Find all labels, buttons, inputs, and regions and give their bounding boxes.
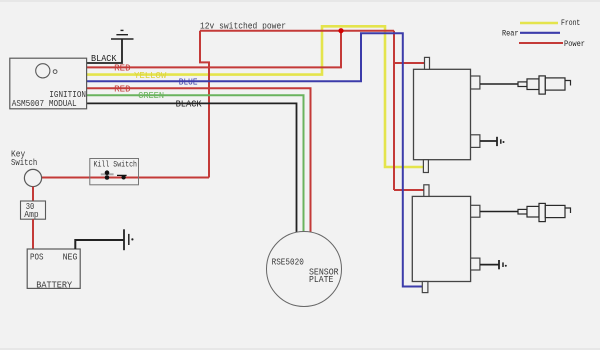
svg-text:PLATE: PLATE	[309, 275, 333, 285]
coil2 ground connector	[471, 258, 480, 270]
wire red vertical to coils	[394, 31, 425, 190]
fuse F1 30 Amp	[21, 201, 46, 219]
svg-text:YELLOW: YELLOW	[134, 71, 167, 81]
kill switch S2	[90, 159, 139, 185]
svg-text:12v switched power: 12v switched power	[200, 20, 286, 31]
svg-text:Front: Front	[561, 18, 580, 28]
coil2 ground wire	[480, 264, 499, 266]
wire red 12v rail top	[200, 30, 394, 32]
coil2 top tab	[424, 185, 429, 197]
coil1 HT connector	[471, 76, 480, 89]
wire red1 from module to rail	[87, 31, 341, 68]
svg-text:BLUE: BLUE	[179, 77, 198, 87]
wire black battery NEG to ground	[75, 240, 124, 249]
svg-text:POS: POS	[30, 253, 44, 263]
svg-text:GREEN: GREEN	[138, 91, 164, 101]
svg-text:NEG: NEG	[63, 253, 78, 263]
svg-text:Kill Switch: Kill Switch	[94, 159, 138, 169]
sensor plate	[267, 232, 342, 307]
coil 2 (rear)	[412, 196, 470, 281]
svg-text:RSE5020: RSE5020	[272, 258, 304, 268]
wire red2 from module to sensor plate	[87, 88, 311, 233]
coil1 plug wire	[480, 83, 518, 85]
wire red fuse to battery	[32, 219, 34, 249]
coil1 ground connector	[471, 135, 480, 148]
coil2 plug wire	[480, 211, 518, 213]
ground G4 (coil2)	[498, 260, 500, 269]
wire black2 from module to sensor plate	[87, 103, 297, 234]
wire yellow from module to coil1 bottom tab	[87, 26, 424, 167]
svg-text:BATTERY: BATTERY	[36, 280, 72, 290]
wire red from key switch up to 12v rail	[42, 31, 210, 178]
bottom edge strip	[0, 348, 600, 350]
svg-text:Amp: Amp	[24, 210, 38, 220]
kill switch contact dots	[105, 170, 110, 175]
wire blue from module to coil2 bottom tab	[87, 33, 422, 286]
svg-text:ASM5007 MODUAL: ASM5007 MODUAL	[12, 99, 77, 109]
kill switch lever	[117, 174, 127, 176]
coil2 HT connector	[471, 205, 480, 217]
top edge strip	[0, 0, 600, 2]
svg-text:RED: RED	[114, 63, 131, 73]
wire black1 from module to ground	[87, 39, 122, 63]
svg-text:Rear: Rear	[502, 29, 519, 39]
ignition module circle	[36, 64, 50, 78]
spark plug P2	[518, 203, 571, 221]
ignition module small o	[53, 70, 57, 74]
coil1 top tab	[425, 57, 430, 69]
coil1 bottom tab	[423, 160, 428, 173]
key switch S1	[24, 169, 41, 186]
wire red key switch to fuse	[32, 187, 34, 201]
node junction dot	[338, 28, 343, 33]
coil2 bottom tab	[422, 282, 428, 293]
legend yellow Front	[520, 22, 558, 24]
coil1 ground wire	[480, 140, 497, 142]
svg-text:RED: RED	[114, 84, 131, 94]
svg-text:BLACK: BLACK	[91, 54, 117, 64]
kill switch pushbutton bar	[101, 173, 114, 175]
ground G3 (coil1)	[496, 137, 498, 146]
ground G1 (module black wire)	[111, 30, 134, 39]
svg-text:BLACK: BLACK	[176, 99, 203, 109]
spark plug P1	[518, 76, 571, 94]
battery BT1	[27, 249, 80, 288]
coil 1 (front)	[414, 69, 471, 159]
wire green from module to sensor plate	[87, 95, 304, 233]
legend red Power	[519, 42, 563, 44]
ignition module U1	[10, 58, 87, 109]
ground G2 (battery)	[124, 229, 129, 250]
svg-text:Switch: Switch	[11, 158, 37, 168]
svg-text:Power: Power	[564, 39, 585, 49]
